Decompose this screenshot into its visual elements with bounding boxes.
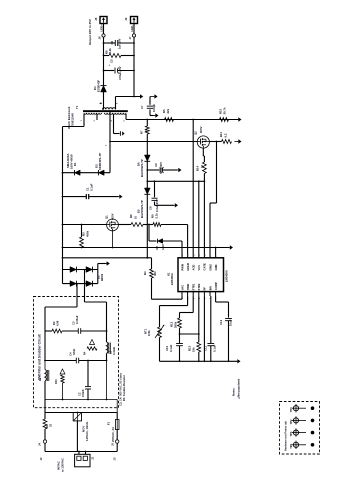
triangle marker R10 bleeder (60, 369, 65, 374)
resistor R3 456k (81, 225, 83, 238)
wire EMI top routing (85, 301, 107, 303)
test point TP4 (293, 442, 298, 447)
pin J5 (116, 440, 119, 443)
node dots C6 row (103, 42, 105, 44)
wire aux right pin to VCC rail (125, 114, 127, 120)
node dot R12 bottom (179, 333, 181, 335)
capacitor C1 0.1uF (85, 194, 87, 199)
svg-text:C3: C3 (72, 321, 76, 325)
svg-text:C7: C7 (140, 105, 144, 109)
resistor R9 5.1k (153, 223, 161, 227)
capacitor C2 150nF (87, 361, 89, 387)
svg-text:46k: 46k (153, 271, 157, 276)
node dot clamp left (62, 172, 64, 174)
EMI filter dashed box (34, 297, 119, 408)
svg-text:TP1: TP1 (289, 407, 293, 412)
wire EMI bottom routing (44, 381, 46, 413)
svg-text:600V: 600V (111, 213, 115, 220)
wire VCC riser to IC pin (192, 120, 194, 258)
node dot VCC line tap (146, 180, 148, 182)
wire primary left pin down (83, 114, 85, 127)
node dots C5 row (103, 70, 105, 72)
svg-text:100k: 100k (147, 330, 151, 336)
svg-text:J8: J8 (94, 17, 98, 21)
capacitor C10 0.1uF (176, 343, 183, 345)
svg-text:0.33uF: 0.33uF (75, 315, 79, 324)
resistor R4 46k (150, 269, 154, 278)
capacitor C4 33nF (75, 358, 77, 364)
ground flag C1 (117, 196, 119, 198)
svg-text:J3: J3 (113, 457, 117, 460)
ground flag C7 bottom (153, 115, 156, 117)
svg-text:2.2k: 2.2k (108, 48, 112, 54)
svg-text:R1: Fusible Resistor: R1: Fusible Resistor (122, 375, 126, 401)
transformer T1 primary winding (84, 113, 102, 114)
node dot drain rail (109, 141, 111, 143)
wire secondary right pin (115, 107, 117, 110)
node dot C9 tap (146, 169, 148, 171)
ground flag C8 (172, 204, 175, 206)
capacitor C3 0.33uF (62, 330, 78, 332)
svg-text:1uF,50V: 1uF,50V (118, 38, 122, 49)
svg-text:R2: R2 (52, 321, 56, 325)
svg-text:ACD: ACD (192, 265, 196, 271)
node dots GND rail (62, 247, 64, 249)
wire left DC bus rail (62, 127, 64, 284)
ground flag C9 (176, 169, 178, 171)
svg-text:Output 28V to 35V: Output 28V to 35V (88, 19, 92, 45)
svg-text:0.1uF: 0.1uF (90, 183, 94, 191)
resistor R7 10 (145, 126, 149, 134)
svg-text:Q1: Q1 (105, 215, 109, 219)
svg-text:3.3mH: 3.3mH (112, 347, 116, 355)
polarity dot secondary (100, 103, 102, 105)
wire C11 riser (210, 296, 212, 343)
wire secondary left pin (103, 106, 105, 110)
svg-text:GATE: GATE (203, 263, 207, 270)
svg-text:TP4: TP4 (289, 443, 293, 448)
svg-text:LM3450A: LM3450A (170, 273, 174, 285)
wire ISNS riser (216, 142, 218, 204)
svg-text:140VAC, 10mm: 140VAC, 10mm (85, 421, 89, 441)
transformer T1 aux winding (105, 113, 127, 114)
svg-text:250VAC, 3A: 250VAC, 3A (111, 427, 115, 442)
wire Q1 drain rail (63, 224, 107, 226)
diode D7 zener 3.9V (149, 240, 157, 242)
pin J6 (102, 34, 105, 37)
svg-text:BAV19WS-TP: BAV19WS-TP (140, 159, 144, 177)
connector J9 (LED-) (131, 17, 138, 24)
resistor R10 39.7k (220, 118, 229, 122)
transformer T1 core bar (83, 110, 128, 112)
capacitor C12 10uF (225, 318, 232, 320)
wire primary right pin long vertical to clamp (109, 112, 111, 173)
svg-text:600V: 600V (199, 126, 203, 133)
node dot L2 top (106, 330, 108, 332)
mosfet Q2 (197, 136, 209, 148)
wire drain rail (110, 141, 197, 143)
wire VCC horizontal to IC (147, 180, 204, 182)
svg-text:INV: INV (208, 286, 212, 291)
wire pin b5 riser (203, 296, 205, 361)
svg-text:33: 33 (49, 424, 53, 427)
test point TP1 (293, 406, 298, 411)
wire output right rail (133, 24, 135, 97)
svg-text:FTR2: FTR2 (197, 283, 201, 290)
wire C4 row (44, 331, 46, 361)
svg-text:470uF,35V: 470uF,35V (118, 66, 122, 80)
svg-text:FF: FF (203, 287, 207, 291)
resistor R6 2.2k (104, 55, 110, 57)
capacitor C7 100pF (149, 97, 151, 105)
svg-text:PWM: PWM (180, 263, 184, 270)
ground flag secondary return (139, 96, 141, 98)
svg-text:Q2: Q2 (194, 131, 198, 135)
svg-text:R11: R11 (219, 132, 223, 137)
transformer T1 secondary winding (103, 108, 116, 110)
capacitor C9 33uF,35V (147, 169, 159, 171)
svg-text:J9: J9 (124, 17, 128, 21)
svg-text:C9: C9 (154, 163, 158, 167)
wire R8 to R9 (143, 224, 153, 226)
svg-text:F1: F1 (107, 421, 111, 425)
diode D1 SMAJ160A TVS (75, 170, 81, 175)
svg-text:J4: J4 (38, 443, 42, 446)
svg-text:TP2: TP2 (289, 419, 293, 424)
svg-text:U1: U1 (167, 272, 171, 276)
svg-text:456k: 456k (86, 230, 90, 237)
wire zener tap down (148, 225, 150, 242)
svg-text:J5: J5 (111, 443, 115, 446)
svg-text:J7: J7 (128, 36, 132, 40)
resistor R12 280k (178, 318, 182, 328)
svg-text:VAC: VAC (180, 285, 184, 291)
svg-text:R1: R1 (45, 424, 49, 428)
inductor L2 3.3mH (106, 329, 108, 343)
svg-text:10uF: 10uF (229, 319, 233, 326)
capacitor aux small (119, 131, 121, 136)
svg-text:2.2uF,25V: 2.2uF,25V (155, 199, 159, 212)
svg-text:Hardware test Points tab: Hardware test Points tab (284, 421, 288, 451)
svg-text:33nF: 33nF (72, 348, 76, 355)
svg-text:LM3450A: LM3450A (225, 270, 229, 282)
diode D4 output rectifier (103, 84, 105, 86)
svg-text:6.2: 6.2 (224, 133, 228, 137)
svg-text:VCC: VCC (197, 265, 201, 271)
wire gate drive R14 (202, 148, 204, 156)
resistor R13 18k (197, 342, 201, 352)
svg-text:Notes:: Notes: (232, 388, 236, 396)
wire aux pin to small cap (113, 114, 115, 134)
wire Q1 right (118, 224, 131, 226)
wire secondary top-right to LED- net (115, 97, 117, 107)
svg-text:MOV: MOV (82, 426, 86, 432)
svg-text:C2: C2 (78, 392, 82, 396)
svg-text:R8: R8 (129, 214, 133, 218)
node dot VCC top (146, 119, 148, 121)
svg-text:0.1uF: 0.1uF (213, 344, 217, 352)
resistor R11 6.2 (222, 140, 232, 144)
inductor L1 (44, 361, 46, 370)
svg-text:10: 10 (200, 164, 204, 168)
diode D3 UFM15PL-TP (99, 170, 105, 175)
svg-text:GND: GND (214, 264, 218, 270)
svg-text:C4: C4 (69, 352, 73, 356)
svg-text:RT1: RT1 (144, 328, 148, 334)
svg-text:TP3: TP3 (289, 431, 293, 436)
svg-text:5.1k: 5.1k (155, 213, 159, 219)
svg-text:280k: 280k (174, 321, 178, 328)
diode D5 BAV19WS-TP (144, 188, 150, 194)
wire output left rail upper (103, 24, 105, 86)
ground flag rail R10 end (237, 119, 238, 121)
wire RT1 feed (187, 296, 189, 306)
pin J7 (132, 34, 135, 37)
svg-text:10: 10 (144, 128, 148, 132)
fuse F1 250VAC 3A (116, 413, 118, 420)
svg-text:ES3D43F: ES3D43F (97, 80, 101, 92)
svg-text:39.7k: 39.7k (223, 107, 227, 114)
svg-text:C11: C11 (204, 346, 208, 351)
ground flag bridge (105, 263, 107, 265)
svg-text:BAV19WS-TP: BAV19WS-TP (140, 200, 144, 218)
wire pin b4 riser (198, 296, 200, 342)
wire rows join (88, 348, 98, 350)
svg-text:R4: R4 (83, 351, 87, 355)
capacitor C5 470uF (polarized) (104, 70, 115, 72)
node dot J9 rail join (133, 96, 135, 98)
wire Q2 source (209, 141, 221, 143)
node dot zener tap (148, 224, 150, 226)
wire pin t4 riser (198, 181, 200, 257)
test point TP3 (293, 430, 298, 435)
svg-text:TIMR: TIMR (186, 284, 190, 291)
capacitor C11 0.1uF (207, 343, 214, 345)
op-amp U1 LM3450A controller (178, 258, 224, 292)
connector J1 (75, 454, 90, 467)
node dots R6 row (103, 55, 105, 57)
svg-text:C5: C5 (110, 59, 114, 63)
node dot C1 left (62, 196, 64, 198)
IC U1 top pin stubs (181, 241, 183, 258)
wire primary pin2 stub (96, 114, 98, 120)
bridge rectifier D2 HD06 (63, 269, 98, 271)
wire C12 branch (215, 296, 217, 302)
svg-text:J6: J6 (98, 36, 102, 40)
svg-text:HD06: HD06 (100, 273, 104, 281)
thermistor RT1 (158, 327, 162, 338)
resistor R8 10 (131, 223, 143, 227)
svg-text:D1: D1 (73, 162, 77, 166)
svg-text:to 130VAC: to 130VAC (61, 458, 65, 472)
ground flag GND rail end (228, 247, 230, 249)
IC U1 bottom pin stubs (181, 292, 183, 296)
svg-text:EMI Filter and Snubber Circuit: EMI Filter and Snubber Circuit (38, 333, 42, 380)
svg-text:100pF: 100pF (152, 104, 156, 112)
svg-text:4.99: 4.99 (56, 320, 60, 326)
svg-text:C3, C4: 305 VAC, X2 class: C3, C4: 305 VAC, X2 class (119, 373, 123, 406)
wire primary GND rail (63, 247, 230, 249)
svg-text:22k: 22k (166, 108, 170, 113)
svg-text:T1: T1 (75, 105, 79, 109)
wire bottom GND rail (160, 360, 237, 362)
wire bridge AC taps (84, 270, 86, 303)
wire VCC branch vertical (146, 120, 148, 127)
wire neutral down right (106, 361, 108, 400)
wire AC rail lower (45, 451, 117, 453)
node dot bridge rail tee (146, 257, 148, 259)
triangle not-populated marker R4 (90, 340, 95, 345)
svg-text:J1: J1 (91, 456, 95, 460)
wire bridge rail to R4 (63, 257, 152, 259)
svg-text:COMP: COMP (214, 282, 218, 290)
svg-text:750811048: 750811048 (71, 113, 75, 127)
wire R12 feed (192, 296, 194, 313)
capacitor C6 1uF,50V (104, 42, 116, 44)
ground flag bottom rail (236, 360, 238, 362)
svg-text:10: 10 (134, 215, 138, 219)
wire AC rail upper (45, 412, 117, 414)
node dot Q1 rail left (62, 224, 64, 226)
resistor R2 4.99 snubber (45, 330, 52, 332)
node dots bottom GND rail (179, 360, 181, 362)
svg-text:HOLD: HOLD (186, 263, 190, 271)
wire R9 to pin riser (161, 224, 188, 226)
wire clamp line (63, 172, 111, 174)
varistor MOV (73, 413, 81, 421)
wire EMI bottom bus (45, 399, 117, 401)
test points dashed box (280, 402, 320, 455)
svg-text:0.1uF: 0.1uF (169, 344, 173, 352)
svg-text:18k: 18k (192, 347, 196, 352)
svg-text:△Not populated: △Not populated (237, 379, 241, 400)
svg-text:FTR1: FTR1 (192, 283, 196, 290)
wire R13 branch (180, 333, 199, 335)
node dot R3 top (81, 224, 83, 226)
diode D6 BAV19WS-TP (144, 155, 150, 161)
svg-text:+: + (107, 64, 111, 66)
resistor R5 22k (165, 118, 174, 122)
svg-text:UFM15PL-TP: UFM15PL-TP (98, 153, 102, 170)
svg-text:33uF,35V: 33uF,35V (159, 162, 163, 174)
resistor R1 33 fusible (44, 413, 46, 420)
svg-text:C12: C12 (219, 319, 223, 325)
ground flag C7 top (150, 96, 154, 98)
svg-text:R4: R4 (143, 271, 147, 275)
ground flag R11 end (235, 141, 239, 143)
svg-text:R10: R10 (54, 379, 58, 384)
svg-text:C8: C8 (149, 206, 153, 210)
svg-text:L1: L1 (38, 377, 42, 381)
wire C1 line (63, 196, 86, 198)
wire bleeder connects (62, 365, 64, 369)
node dot sense (216, 141, 218, 143)
pin J4 (43, 440, 46, 443)
svg-text:C6: C6 (110, 40, 114, 44)
mosfet Q1 (107, 219, 119, 231)
connector J8 (LED+) (100, 17, 107, 24)
svg-text:J2: J2 (39, 457, 43, 460)
svg-text:150nF: 150nF (81, 389, 85, 397)
svg-text:ISNS: ISNS (208, 264, 212, 270)
capacitor C8 2.2uF,25V (154, 181, 156, 197)
wire GND pin stub (215, 248, 217, 258)
test point TP2 (293, 418, 298, 423)
